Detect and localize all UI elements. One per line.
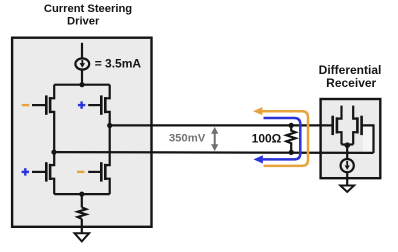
wire: stub above current source I1 <box>81 43 83 59</box>
transistor Q3 channel bar <box>49 164 52 180</box>
receiver transistor Q6 source <box>353 132 357 144</box>
transistor Q4 drain (wire from node C crossing bottom line) <box>105 126 109 166</box>
resistor R2 (100 ohm termination) <box>286 125 295 152</box>
svg-text:Differential: Differential <box>319 63 382 77</box>
resistor R1 <box>78 207 87 219</box>
node C: top line junction <box>107 123 112 128</box>
label + (Q3 gate, blue) <box>22 168 29 175</box>
ground G1 (driver) <box>75 233 90 241</box>
wire: lower source rail <box>54 193 109 195</box>
svg-text:Receiver: Receiver <box>326 76 376 90</box>
svg-text:Driver: Driver <box>67 16 100 28</box>
transistor Q4 gate bar <box>100 162 103 181</box>
bottom transmission line (node B to receiver right gate loop) <box>54 151 374 154</box>
transistor Q1 gate bar <box>45 95 48 114</box>
current source I1 (3.5mA) circle <box>75 58 89 69</box>
current source I2 circle <box>341 159 354 172</box>
current source I1 arrow <box>80 60 85 68</box>
transistor Q3 (lower-left) gate wire <box>32 171 46 173</box>
transistor Q4 source <box>105 179 109 194</box>
blue current loop arrow <box>263 118 300 159</box>
transistor Q4 (lower-right) gate wire <box>88 171 101 173</box>
ground G2 (receiver) <box>340 186 354 192</box>
transistor Q2 channel bar <box>104 97 107 113</box>
transistor Q1 source (wire to node B) <box>50 112 54 152</box>
350mV measurement arrow (gray) <box>211 127 218 151</box>
svg-text:Current Steering: Current Steering <box>44 3 132 15</box>
transistor Q2 source (wire to node C) <box>105 112 109 126</box>
receiver gate-loop white area <box>363 127 373 152</box>
receiver transistor Q6 (right) gate bar <box>360 116 363 135</box>
transistor Q1 drain <box>50 85 54 99</box>
node: R2 bottom junction <box>289 150 294 155</box>
receiver transistor Q5 drain stub <box>337 106 342 119</box>
wire: source join to current source I2 <box>346 145 348 160</box>
transistor Q3 source <box>50 179 54 194</box>
label - (Q4 gate, orange) <box>77 171 84 173</box>
receiver transistor Q5 channel bar <box>336 117 339 133</box>
svg-text:= 3.5mA: = 3.5mA <box>95 57 142 71</box>
transistor Q2 (upper-right) gate wire <box>88 104 101 106</box>
node B: bottom line junction <box>51 150 56 155</box>
svg-text:100Ω: 100Ω <box>252 131 282 145</box>
orange current loop arrow <box>261 111 308 166</box>
receiver transistor Q6 channel bar <box>356 117 359 133</box>
node: receiver source junction <box>345 142 351 148</box>
wire: receiver Q6 gate loop <box>362 125 374 152</box>
wire: rail to resistor R1 <box>81 194 83 207</box>
transistor Q1 channel bar <box>49 97 52 113</box>
wire: resistor R1 to ground <box>81 219 83 233</box>
transistor Q3 gate bar <box>45 162 48 181</box>
wire: receiver source join <box>342 143 354 145</box>
transistor Q4 channel bar <box>104 164 107 180</box>
receiver transistor Q5 source <box>337 132 342 144</box>
transistor Q1 (upper-left) gate wire <box>32 104 46 106</box>
label + (Q2 gate, blue) <box>78 101 85 108</box>
node: R2 top junction <box>289 123 294 128</box>
wire: upper drain rail <box>54 84 109 86</box>
current source I2 arrow <box>345 161 350 170</box>
receiver transistor Q5 (left) gate bar <box>331 116 334 135</box>
node: rail junction (I1/drains) <box>79 82 84 87</box>
wire: current source I2 to ground <box>346 172 348 186</box>
transistor Q2 gate bar <box>100 95 103 114</box>
transistor Q3 drain (wire from node B) <box>50 152 54 165</box>
driver box <box>12 38 151 227</box>
svg-text:350mV: 350mV <box>169 132 206 144</box>
wire: current source I1 to drain rail <box>81 69 83 84</box>
top transmission line (node C to receiver left gate) <box>110 124 333 126</box>
node: source rail junction <box>79 192 84 197</box>
transistor Q2 drain <box>105 85 109 99</box>
receiver transistor Q6 drain stub <box>353 106 357 119</box>
label - (Q1 gate, orange) <box>22 104 30 106</box>
receiver box <box>321 99 381 178</box>
